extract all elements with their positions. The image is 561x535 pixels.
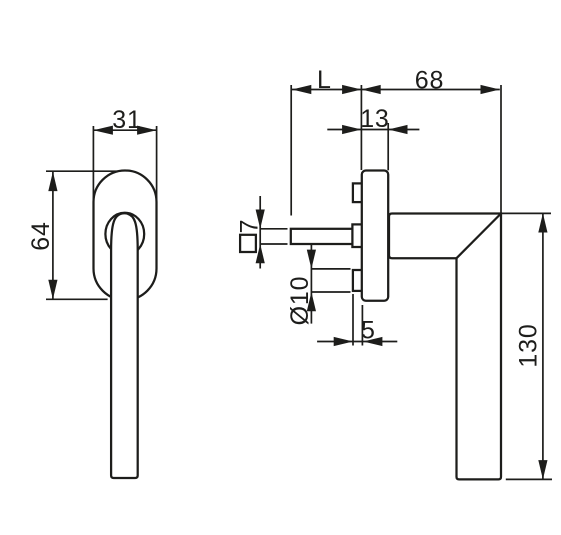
svg-text:7: 7: [236, 219, 264, 234]
svg-text:68: 68: [415, 67, 444, 95]
svg-text:130: 130: [515, 323, 543, 367]
svg-text:13: 13: [360, 105, 389, 133]
svg-text:31: 31: [112, 106, 141, 134]
svg-text:L: L: [317, 66, 332, 94]
svg-text:64: 64: [27, 221, 55, 250]
svg-text:Ø10: Ø10: [286, 276, 314, 326]
svg-text:5: 5: [361, 317, 376, 345]
